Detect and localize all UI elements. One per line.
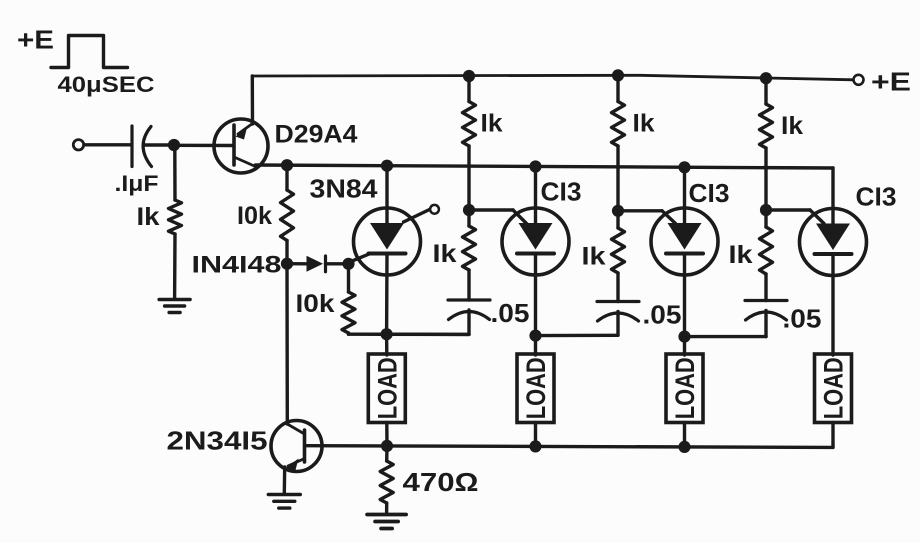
junction +E rail / 1k stage 3 [760, 72, 772, 84]
wire 1k-lower to capacitor stage 2 [616, 273, 619, 302]
wire 1k-top to gate node stage 3 (crosses trigger rail) [764, 148, 767, 210]
wire resistor 1k to ground [173, 234, 177, 299]
junction trigger rail / C13-1 anode [529, 160, 541, 172]
svg-text:.05: .05 [491, 298, 530, 328]
label .05 stage 1 [491, 298, 530, 328]
capacitor .1uF (left straight plate) [130, 126, 133, 167]
junction +E rail / 1k stage 1 [463, 70, 475, 82]
label 1k (lower) stage 1 [433, 240, 457, 268]
label +E (top right) [871, 67, 911, 97]
svg-text:Ik: Ik [582, 243, 606, 271]
wire 1k-top to gate node stage 2 (crosses trigger rail) [616, 146, 619, 211]
node gate junction stage 3 [760, 204, 772, 216]
svg-text:Ik: Ik [781, 112, 803, 140]
thyristor 3N84 (SCS) [354, 208, 421, 275]
svg-text:+E: +E [17, 25, 54, 55]
wire 10k-2 to cathode bus 1 [347, 333, 350, 334]
junction trigger rail / 10k [281, 159, 293, 171]
capacitor .05 stage 3 [745, 301, 787, 321]
svg-text:40μSEC: 40μSEC [58, 72, 155, 97]
resistor 10k-1 [281, 190, 294, 241]
node cathode bus 1 junction [381, 328, 393, 340]
label .05 stage 2 [643, 300, 682, 330]
svg-text:CI3: CI3 [856, 182, 897, 212]
svg-text:.05: .05 [783, 304, 822, 334]
wire bus to resistor 470 [385, 446, 389, 461]
wire 10k-1 to diode node [285, 241, 288, 264]
wire gate node to 1k-lower stage 2 [616, 211, 619, 228]
wire 1k-lower to capacitor stage 3 [764, 274, 767, 301]
svg-text:Ik: Ik [633, 110, 655, 138]
svg-text:470Ω: 470Ω [403, 467, 479, 497]
node A junction (cap / base / 1k) [168, 139, 180, 151]
wire capacitor to coupling line stage 1 [467, 310, 470, 334]
node cathode bus 3 junction [678, 331, 690, 343]
wire C13-2 gate diagonal [662, 211, 676, 224]
capacitor .05 stage 1 [448, 300, 490, 320]
wire trigger rail corner to C13-3 anode [831, 168, 834, 224]
transistor Q2 2N3415 (circle) [271, 421, 322, 472]
svg-text:3N84: 3N84 [310, 174, 379, 204]
label 1k (top) stage 3 [781, 112, 803, 140]
label .1uF [115, 171, 159, 196]
wire 3N84 anode [385, 166, 388, 223]
ground (Q2 emitter) [268, 495, 300, 509]
wire LOAD-2 to bottom bus [534, 423, 537, 447]
wire LOAD-4 to bottom bus corner [831, 423, 834, 448]
wire coupling line stage 3 (to previous cathode) [685, 335, 767, 338]
svg-text:Ik: Ik [433, 240, 457, 268]
+E output terminal (top right) [854, 75, 864, 85]
wire 1k-top to gate node stage 1 (crosses trigger rail) [467, 146, 470, 210]
wire node A down to resistor 1k input [173, 145, 177, 200]
wire cathode bus 2 to LOAD-2 [534, 336, 537, 355]
label 10k (upper) [237, 202, 272, 230]
ground (input bias resistor) [159, 300, 190, 313]
wire coupling line stage 1 (to previous cathode) [387, 333, 469, 337]
wire gate node to 1k-lower stage 3 [764, 210, 767, 227]
junction bottom bus / LOAD-3 [678, 441, 690, 453]
wire +E top rail [252, 75, 853, 80]
label C13 (second) [689, 178, 730, 208]
svg-text:Ik: Ik [729, 241, 753, 269]
label 1k (top) stage 1 [481, 110, 503, 138]
label 3N84 [310, 174, 379, 204]
wire LOAD-1 to bottom bus [385, 423, 389, 446]
transistor Q2 base bar [303, 430, 307, 462]
wire cathode bus 1 to LOAD-1 [385, 334, 389, 355]
wire diode node down to Q2 collector [285, 264, 289, 424]
junction trigger rail / C13-2 anode [678, 161, 690, 173]
resistor 1k (gate-bias) stage 3 [760, 227, 773, 274]
wire +E rail to resistor 1k-top stage 3 [764, 78, 767, 104]
diode 1N4148 (cathode bar) [324, 256, 327, 272]
wire C13-1 cathode down [534, 254, 537, 336]
label C13 (third) [856, 182, 897, 212]
resistor 1k (anode-gate pull-up) stage 3 [760, 104, 773, 148]
label 1k (input bias) [137, 203, 160, 231]
wire capacitor to node A [145, 143, 174, 146]
node cathode bus 2 junction [529, 330, 541, 342]
wire gate node to 1k-lower stage 1 [467, 210, 470, 226]
wire 3N84 anode-gate diagonal [404, 210, 430, 223]
wire capacitor to coupling line stage 2 [616, 312, 619, 336]
label 1k (lower) stage 3 [729, 241, 753, 269]
svg-text:LOAD: LOAD [819, 357, 849, 419]
svg-text:.IμF: .IμF [115, 171, 159, 196]
label D29A4 [275, 121, 358, 149]
wire cathode bus 3 to LOAD-3 [683, 337, 686, 355]
transistor Q1 D29A4 (circle) [214, 119, 268, 173]
junction bottom bus / LOAD-2 [529, 440, 541, 452]
transistor Q1 collector diagonal [234, 157, 256, 167]
wire Q2 emitter to ground [283, 467, 287, 494]
node gate junction stage 2 [612, 205, 624, 217]
svg-text:CI3: CI3 [689, 178, 730, 208]
resistor 1k (anode-gate pull-up) stage 2 [612, 102, 625, 147]
label 1k (top) stage 2 [633, 110, 655, 138]
wire cathode bus 1 (10k-2 to C1 lead) [349, 333, 470, 337]
label +E (pulse source) [17, 25, 54, 55]
thyristor C13-1 [502, 208, 569, 275]
diode 1N4148 (anode wire) [287, 262, 307, 265]
wire 3N84 cathode-gate diagonal [349, 253, 372, 262]
ground (470 ohm) [367, 515, 406, 529]
label 10k (lower) [296, 290, 335, 318]
svg-text:I0k: I0k [296, 290, 335, 318]
resistor 1k (gate-bias) stage 2 [612, 228, 625, 273]
load box LOAD-1 [368, 354, 405, 423]
wire node B to resistor 10k-2 [347, 264, 350, 292]
svg-text:.05: .05 [643, 300, 682, 330]
thyristor C13-2 [651, 208, 718, 275]
node B junction (diode / 10k-2 / 3N84 cathode gate) [342, 258, 354, 270]
junction bottom bus / LOAD-1 / 470 ohm [381, 440, 393, 452]
node gate junction stage 1 [463, 204, 475, 216]
resistor 470 ohm [380, 461, 393, 503]
thyristor C13-3 [800, 209, 867, 276]
diode 1N4148 (triangle) [307, 256, 324, 272]
capacitor .05 stage 2 [597, 302, 639, 322]
transistor Q2 collector diagonal [287, 424, 304, 434]
input terminal [73, 140, 83, 150]
load box LOAD-2 [517, 354, 554, 423]
wire C13-2 anode [683, 167, 686, 223]
label 470 ohm [403, 467, 479, 497]
wire 470 to ground [385, 503, 389, 514]
svg-text:I0k: I0k [237, 202, 272, 230]
wire C13-1 gate diagonal [513, 210, 527, 224]
svg-text:CI3: CI3 [541, 177, 582, 207]
wire LOAD-3 to bottom bus [683, 423, 686, 447]
load box LOAD-3 [666, 354, 703, 423]
label 40uSEC [58, 72, 155, 97]
pulse waveform symbol (40 microsecond pulse) [51, 36, 128, 68]
resistor 1k (input bias) [169, 200, 182, 234]
svg-text:2N34I5: 2N34I5 [167, 426, 268, 456]
3N84 anode-gate terminal [430, 205, 439, 214]
capacitor .1uF (right curved plate) [143, 127, 151, 167]
wire coupling line stage 2 (to previous cathode) [536, 334, 619, 338]
wire +E rail to resistor 1k-top stage 2 [616, 75, 619, 101]
wire gate node to C13-1 gate [469, 208, 513, 211]
svg-text:Ik: Ik [137, 203, 160, 231]
transistor Q1 emitter (arrow into bar, PNP) [236, 124, 253, 140]
resistor 1k (anode-gate pull-up) stage 1 [463, 102, 476, 147]
wire 1k-lower to capacitor stage 1 [467, 270, 470, 300]
wire C13-2 cathode down [683, 255, 686, 337]
transistor Q2 emitter (arrow outward, NPN) [284, 459, 305, 473]
wire gate node to C13-3 gate [766, 208, 810, 211]
wire C13-3 gate diagonal [810, 210, 824, 224]
wire input terminal to capacitor C-in [84, 143, 131, 146]
wire node A to Q1 base [174, 144, 233, 148]
svg-text:LOAD: LOAD [372, 357, 402, 419]
label C13 (first) [541, 177, 582, 207]
wire capacitor to coupling line stage 3 [764, 311, 767, 337]
svg-text:LOAD: LOAD [670, 357, 700, 419]
junction +E rail / 1k stage 2 [612, 69, 624, 81]
wire +E rail to resistor 1k-top stage 1 [467, 76, 470, 102]
svg-text:LOAD: LOAD [521, 357, 551, 419]
wire 3N84 cathode down [385, 254, 389, 335]
load box LOAD-4 [815, 354, 852, 423]
svg-text:D29A4: D29A4 [275, 121, 358, 149]
resistor 10k-2 [342, 292, 355, 333]
wire C13-1 anode [534, 167, 537, 224]
wire C13-3 cathode to LOAD-4 [831, 255, 834, 356]
label 1k (lower) stage 2 [582, 243, 606, 271]
junction trigger rail / 3N84 anode [381, 160, 393, 172]
wire gate node to C13-2 gate [618, 209, 662, 212]
label 2N3415 [167, 426, 268, 456]
svg-text:+E: +E [871, 67, 911, 97]
resistor 1k (gate-bias) stage 1 [463, 226, 476, 270]
label .05 stage 3 [783, 304, 822, 334]
node diode anode junction [281, 258, 293, 270]
svg-text:IN4I48: IN4I48 [192, 252, 282, 279]
wire trigger rail to resistor 10k-1 [285, 165, 288, 190]
svg-text:Ik: Ik [481, 110, 503, 138]
transistor Q1 base bar [232, 125, 236, 165]
wire trigger rail (Q1 collector bus) [256, 165, 834, 168]
wire diode cathode to node B [326, 262, 349, 265]
wire Q1 emitter to +E rail [251, 76, 255, 124]
wire bottom bus (Q2 base line) [306, 446, 833, 448]
label 1N4148 [192, 252, 282, 279]
